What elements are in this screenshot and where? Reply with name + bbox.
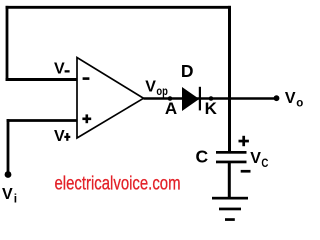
svg-text:V: V	[54, 128, 65, 145]
op-amp inverting marker -	[83, 77, 90, 80]
node Vo terminal	[274, 95, 280, 101]
ground	[212, 197, 248, 200]
svg-text:op: op	[156, 86, 168, 98]
svg-text:V: V	[145, 79, 156, 96]
wire feedback top horizontal	[6, 6, 231, 9]
op-amp non-inverting marker +	[82, 118, 91, 121]
wire feedback left vertical	[6, 6, 9, 81]
wire capacitor to ground	[228, 163, 231, 198]
svg-text:o: o	[296, 98, 303, 110]
wire op-amp output	[144, 97, 277, 100]
svg-text:V: V	[250, 150, 261, 167]
svg-text:K: K	[205, 99, 218, 118]
capacitor C top plate	[216, 151, 247, 154]
wire non-inverting input V+	[7, 119, 77, 122]
op-amp U1	[77, 58, 144, 139]
svg-text:i: i	[14, 192, 17, 206]
svg-text:electricalvoice.com: electricalvoice.com	[55, 174, 181, 195]
capacitor polarity -	[241, 170, 251, 173]
svg-text:A: A	[165, 99, 177, 118]
node Vi terminal	[5, 171, 12, 178]
svg-text:V: V	[2, 186, 13, 203]
node A	[168, 96, 173, 101]
wire right vertical from top to capacitor	[228, 6, 231, 153]
diode D	[182, 87, 199, 111]
node K	[209, 96, 214, 101]
wire inverting input V-	[6, 78, 77, 81]
svg-text:D: D	[181, 61, 194, 81]
wire Vi vertical	[7, 119, 10, 174]
svg-text:V: V	[285, 90, 296, 107]
svg-text:C: C	[261, 156, 268, 170]
capacitor polarity +	[239, 140, 249, 143]
capacitor C bottom plate	[216, 161, 247, 164]
svg-text:C: C	[196, 147, 209, 167]
svg-text:V: V	[54, 61, 65, 78]
